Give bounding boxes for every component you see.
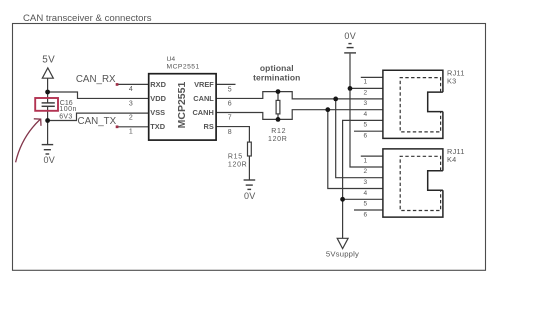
svg-text:6: 6	[363, 211, 367, 218]
svg-text:3: 3	[129, 100, 133, 107]
svg-text:U4: U4	[167, 56, 176, 63]
svg-text:6V3: 6V3	[59, 113, 72, 120]
svg-text:5: 5	[363, 201, 367, 208]
svg-text:5: 5	[228, 87, 232, 94]
svg-text:R12: R12	[271, 128, 286, 135]
svg-text:termination: termination	[253, 73, 300, 83]
svg-text:6: 6	[228, 101, 232, 108]
svg-text:3: 3	[363, 100, 367, 107]
svg-text:8: 8	[228, 129, 232, 136]
svg-text:0V: 0V	[44, 155, 56, 165]
svg-text:CAN_RX: CAN_RX	[76, 74, 116, 85]
svg-text:5: 5	[363, 122, 367, 129]
svg-text:7: 7	[228, 115, 232, 122]
svg-text:2: 2	[129, 114, 133, 121]
svg-text:CANL: CANL	[193, 94, 214, 103]
svg-text:optional: optional	[260, 63, 294, 73]
svg-text:4: 4	[363, 111, 367, 118]
svg-text:R15: R15	[228, 153, 243, 160]
svg-text:K3: K3	[447, 76, 457, 85]
svg-text:1: 1	[129, 129, 133, 136]
svg-text:VDD: VDD	[150, 94, 166, 103]
svg-text:4: 4	[363, 190, 367, 197]
svg-text:0V: 0V	[344, 31, 356, 41]
svg-text:VREF: VREF	[194, 80, 214, 89]
svg-text:3: 3	[363, 179, 367, 186]
svg-text:CAN_TX: CAN_TX	[78, 116, 117, 127]
svg-text:1: 1	[363, 157, 367, 164]
svg-text:120R: 120R	[228, 161, 248, 168]
svg-text:2: 2	[363, 168, 367, 175]
svg-text:K4: K4	[447, 155, 457, 164]
svg-text:MCP2551: MCP2551	[167, 64, 200, 71]
svg-text:120R: 120R	[268, 136, 288, 143]
svg-text:5Vsupply: 5Vsupply	[326, 249, 359, 258]
svg-text:4: 4	[129, 86, 133, 93]
svg-text:VSS: VSS	[150, 108, 165, 117]
svg-text:CANH: CANH	[192, 108, 213, 117]
svg-text:0V: 0V	[244, 191, 256, 201]
svg-text:1: 1	[363, 79, 367, 86]
svg-text:100n: 100n	[59, 106, 77, 113]
svg-text:2: 2	[363, 90, 367, 97]
svg-text:RXD: RXD	[150, 80, 166, 89]
svg-text:6: 6	[363, 133, 367, 140]
svg-text:MCP2551: MCP2551	[176, 82, 188, 129]
svg-text:RS: RS	[204, 122, 214, 131]
svg-text:CAN transceiver & connectors: CAN transceiver & connectors	[23, 13, 152, 24]
svg-text:TXD: TXD	[150, 122, 165, 131]
svg-text:5V: 5V	[42, 55, 55, 66]
